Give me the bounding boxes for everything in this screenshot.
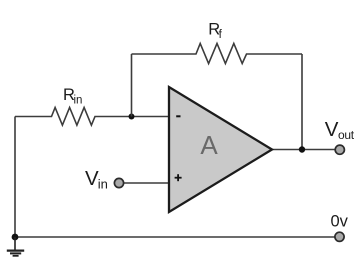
- svg-text:A: A: [200, 130, 218, 160]
- terminal 0v: [335, 232, 344, 241]
- pin label: non-inverting input (+): [175, 174, 182, 181]
- svg-text:out: out: [338, 128, 355, 142]
- resistor Rf (with top rail lead wires): [132, 44, 303, 64]
- pin label: inverting input (-): [176, 115, 180, 117]
- node: ground junction dot: [12, 234, 19, 241]
- svg-text:0v: 0v: [331, 213, 349, 231]
- svg-text:in: in: [74, 95, 83, 107]
- terminal Vin: [114, 178, 123, 187]
- resistor Rin (with input lead wires): [15, 108, 169, 126]
- svg-text:V: V: [325, 118, 339, 141]
- wire: op-amp output to Vout terminal: [272, 149, 335, 151]
- wire: bottom rail from ground node to 0v terminal: [15, 236, 335, 238]
- wire: Vin terminal to non-inverting input: [124, 182, 169, 184]
- ground: [7, 237, 24, 256]
- node: inverting input junction dot: [129, 114, 135, 120]
- wire: feedback right vertical from top rail down to output node: [301, 54, 303, 150]
- wire: feedback vertical riser from inverting node up to top rail: [131, 54, 133, 117]
- wire: left vertical from Rin input corner down to ground node: [14, 117, 16, 238]
- op-amp U1 (triangle, gain A): [169, 87, 272, 212]
- svg-text:in: in: [98, 177, 108, 192]
- node: output junction dot: [299, 146, 305, 152]
- terminal Vout: [335, 145, 344, 154]
